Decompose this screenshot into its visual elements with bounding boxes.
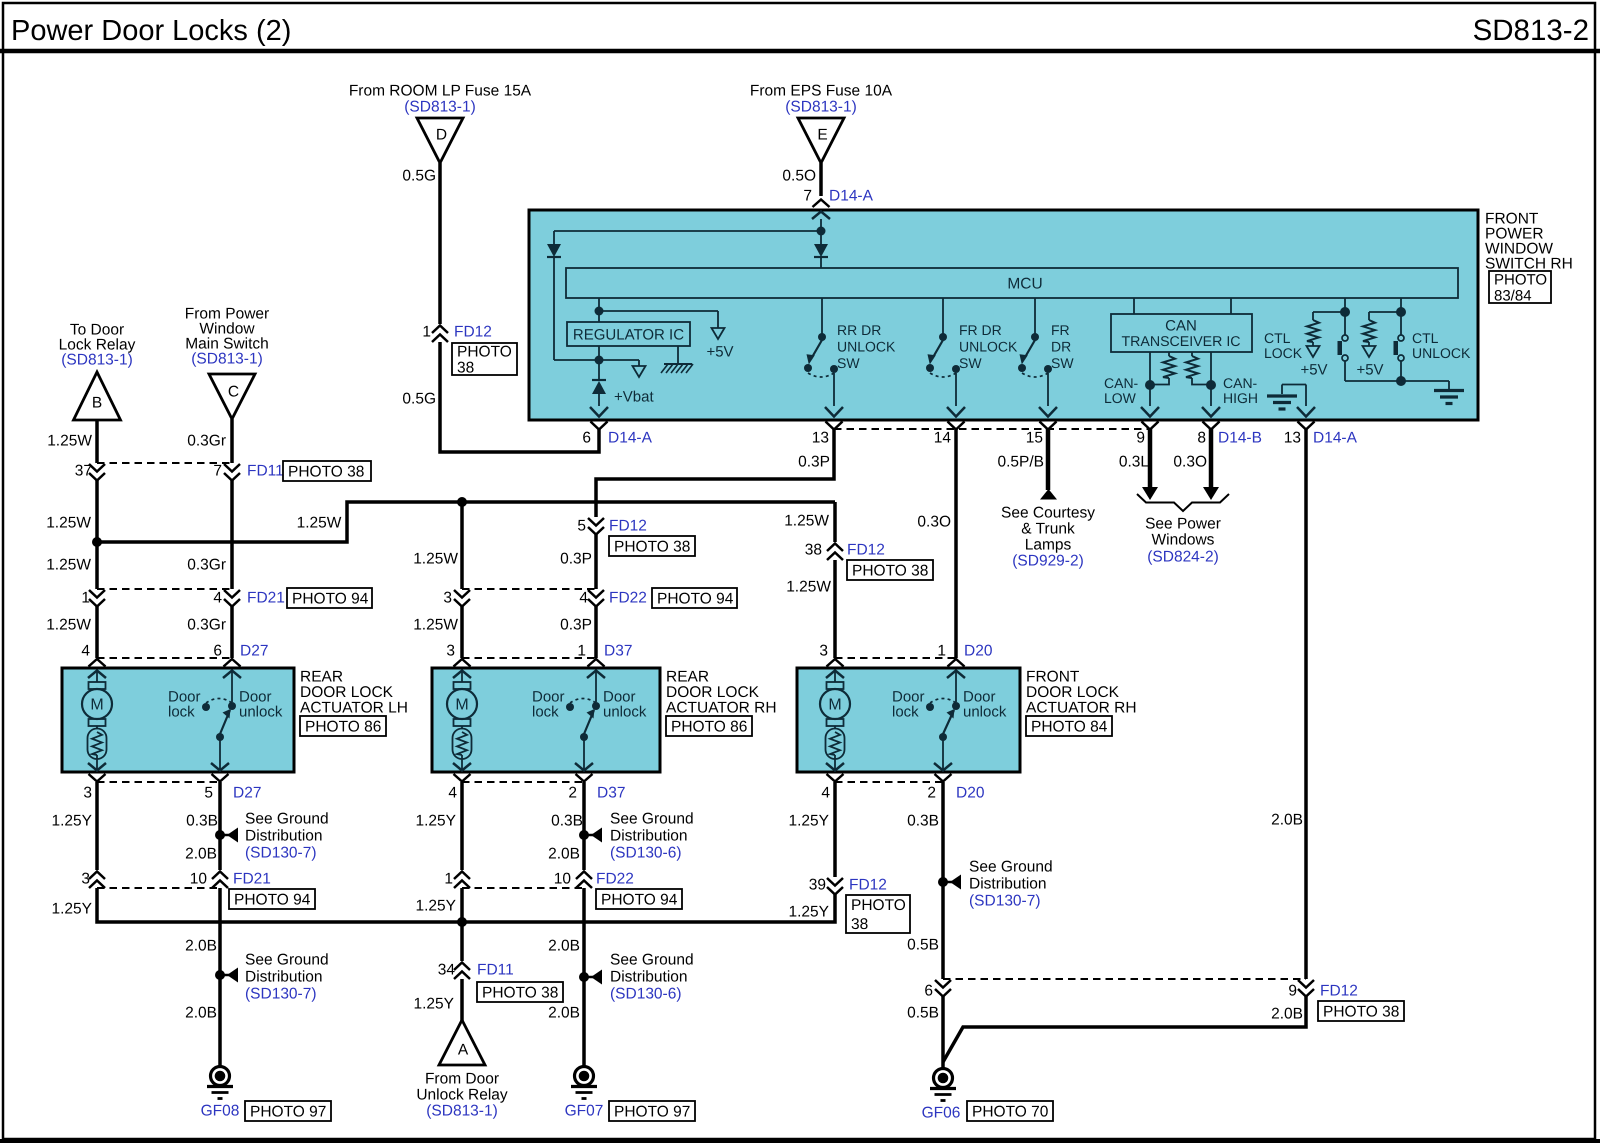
- svg-text:LOW: LOW: [1104, 390, 1137, 406]
- svg-text:D14-A: D14-A: [1313, 430, 1358, 447]
- svg-text:UNLOCK: UNLOCK: [959, 338, 1018, 354]
- svg-text:3: 3: [81, 871, 90, 888]
- svg-text:FD21: FD21: [233, 871, 271, 888]
- svg-text:1.25Y: 1.25Y: [788, 813, 829, 830]
- svg-text:PHOTO 38: PHOTO 38: [482, 985, 558, 1002]
- svg-text:HIGH: HIGH: [1223, 390, 1258, 406]
- svg-text:PHOTO 84: PHOTO 84: [1031, 719, 1108, 736]
- svg-text:unlock: unlock: [603, 703, 647, 720]
- svg-text:1.25W: 1.25W: [46, 557, 91, 574]
- svg-text:D20: D20: [956, 785, 985, 802]
- svg-text:REGULATOR IC: REGULATOR IC: [573, 326, 684, 343]
- svg-text:38: 38: [805, 542, 822, 559]
- svg-text:PHOTO 38: PHOTO 38: [614, 539, 690, 556]
- svg-text:PHOTO 86: PHOTO 86: [305, 719, 381, 736]
- svg-text:FD12: FD12: [1320, 983, 1358, 1000]
- svg-text:From ROOM LP Fuse 15A: From ROOM LP Fuse 15A: [349, 83, 532, 100]
- svg-text:(SD130-7): (SD130-7): [969, 893, 1041, 910]
- svg-text:FD12: FD12: [849, 877, 887, 894]
- svg-text:lock: lock: [168, 703, 195, 720]
- svg-text:PHOTO 97: PHOTO 97: [614, 1104, 690, 1121]
- svg-text:+5V: +5V: [1300, 361, 1327, 378]
- svg-text:DOOR LOCK: DOOR LOCK: [666, 684, 760, 701]
- svg-text:D14-A: D14-A: [829, 188, 874, 205]
- svg-text:D14-B: D14-B: [1218, 430, 1262, 447]
- svg-text:DOOR LOCK: DOOR LOCK: [1026, 684, 1120, 701]
- svg-text:REAR: REAR: [300, 669, 343, 686]
- svg-text:PHOTO 38: PHOTO 38: [852, 563, 928, 580]
- svg-text:0.3P: 0.3P: [560, 551, 592, 568]
- svg-text:SW: SW: [959, 355, 982, 371]
- svg-text:38: 38: [457, 360, 474, 377]
- svg-text:GF06: GF06: [922, 1105, 961, 1122]
- svg-text:DOOR LOCK: DOOR LOCK: [300, 684, 394, 701]
- svg-text:4: 4: [821, 785, 830, 802]
- svg-text:(SD813-1): (SD813-1): [191, 351, 263, 368]
- svg-text:3: 3: [446, 643, 455, 660]
- svg-text:7: 7: [803, 188, 812, 205]
- svg-text:1.25W: 1.25W: [786, 579, 831, 596]
- svg-text:0.3O: 0.3O: [917, 514, 951, 531]
- svg-text:Lamps: Lamps: [1025, 537, 1072, 554]
- svg-text:1.25Y: 1.25Y: [51, 813, 92, 830]
- svg-text:E: E: [817, 127, 827, 144]
- svg-text:0.3P: 0.3P: [798, 454, 830, 471]
- svg-text:FD22: FD22: [596, 871, 634, 888]
- svg-text:M: M: [90, 697, 103, 714]
- svg-text:0.3Gr: 0.3Gr: [187, 557, 226, 574]
- svg-text:D37: D37: [597, 785, 625, 802]
- svg-text:FD12: FD12: [454, 324, 492, 341]
- svg-text:(SD130-7): (SD130-7): [245, 845, 317, 862]
- svg-text:(SD813-1): (SD813-1): [61, 352, 133, 369]
- svg-text:See Ground: See Ground: [610, 811, 694, 828]
- svg-text:8: 8: [1197, 430, 1206, 447]
- svg-text:4: 4: [213, 590, 222, 607]
- svg-text:& Trunk: & Trunk: [1021, 521, 1075, 538]
- svg-text:1.25W: 1.25W: [297, 515, 342, 532]
- svg-text:FR: FR: [1051, 322, 1070, 338]
- svg-text:LOCK: LOCK: [1264, 345, 1303, 361]
- svg-text:lock: lock: [532, 703, 559, 720]
- svg-text:PHOTO: PHOTO: [457, 344, 512, 361]
- svg-text:0.5B: 0.5B: [907, 1005, 939, 1022]
- svg-text:Windows: Windows: [1152, 532, 1215, 549]
- svg-text:1.25W: 1.25W: [784, 513, 829, 530]
- svg-text:0.5B: 0.5B: [907, 937, 939, 954]
- svg-text:CTL: CTL: [1264, 330, 1291, 346]
- svg-text:0.3O: 0.3O: [1173, 454, 1207, 471]
- svg-text:unlock: unlock: [239, 703, 283, 720]
- svg-text:5: 5: [577, 518, 586, 535]
- svg-text:REAR: REAR: [666, 669, 709, 686]
- svg-text:1: 1: [577, 643, 586, 660]
- svg-text:5: 5: [204, 785, 213, 802]
- svg-text:See Ground: See Ground: [610, 952, 694, 969]
- svg-text:See Power: See Power: [1145, 516, 1221, 533]
- svg-text:CAN-: CAN-: [1104, 375, 1139, 391]
- svg-text:PHOTO 94: PHOTO 94: [234, 892, 311, 909]
- svg-text:1.25Y: 1.25Y: [51, 901, 92, 918]
- svg-text:6: 6: [213, 643, 222, 660]
- svg-text:(SD813-1): (SD813-1): [404, 99, 476, 116]
- svg-text:DR: DR: [1051, 338, 1071, 354]
- svg-text:1.25W: 1.25W: [46, 617, 91, 634]
- svg-text:SW: SW: [837, 355, 860, 371]
- svg-text:See Ground: See Ground: [969, 859, 1053, 876]
- svg-text:2: 2: [927, 785, 936, 802]
- svg-text:0.3Gr: 0.3Gr: [187, 617, 226, 634]
- svg-text:PHOTO 86: PHOTO 86: [671, 719, 747, 736]
- svg-text:CTL: CTL: [1412, 330, 1439, 346]
- svg-text:1: 1: [937, 643, 946, 660]
- svg-text:2.0B: 2.0B: [185, 846, 217, 863]
- svg-text:1.25W: 1.25W: [413, 551, 458, 568]
- svg-text:+Vbat: +Vbat: [614, 388, 654, 405]
- svg-text:GF08: GF08: [201, 1103, 240, 1120]
- svg-text:From EPS Fuse 10A: From EPS Fuse 10A: [750, 83, 893, 100]
- svg-text:2.0B: 2.0B: [185, 938, 217, 955]
- svg-text:1.25Y: 1.25Y: [788, 904, 829, 921]
- svg-text:D27: D27: [240, 643, 268, 660]
- svg-text:M: M: [828, 697, 841, 714]
- svg-text:CAN-: CAN-: [1223, 375, 1258, 391]
- svg-text:3: 3: [819, 643, 828, 660]
- svg-text:PHOTO 38: PHOTO 38: [288, 464, 364, 481]
- svg-text:(SD130-6): (SD130-6): [610, 986, 682, 1003]
- svg-text:1: 1: [444, 871, 453, 888]
- svg-text:15: 15: [1026, 430, 1043, 447]
- svg-text:+5V: +5V: [1356, 361, 1383, 378]
- svg-text:0.5G: 0.5G: [402, 168, 436, 185]
- svg-text:2.0B: 2.0B: [1271, 812, 1303, 829]
- svg-text:FD12: FD12: [609, 518, 647, 535]
- svg-text:(SD813-1): (SD813-1): [426, 1103, 498, 1120]
- svg-text:0.3Gr: 0.3Gr: [187, 433, 226, 450]
- svg-text:SW: SW: [1051, 355, 1074, 371]
- svg-text:UNLOCK: UNLOCK: [1412, 345, 1471, 361]
- svg-text:D20: D20: [964, 643, 993, 660]
- svg-text:D14-A: D14-A: [608, 430, 653, 447]
- svg-text:(SD929-2): (SD929-2): [1012, 553, 1084, 570]
- svg-text:See Ground: See Ground: [245, 811, 329, 828]
- svg-text:PHOTO 38: PHOTO 38: [1323, 1004, 1399, 1021]
- svg-text:2.0B: 2.0B: [548, 938, 580, 955]
- svg-text:Distribution: Distribution: [969, 876, 1047, 893]
- svg-text:0.3B: 0.3B: [907, 813, 939, 830]
- svg-text:PHOTO 97: PHOTO 97: [250, 1104, 326, 1121]
- svg-text:1.25W: 1.25W: [47, 433, 92, 450]
- svg-text:FRONT: FRONT: [1026, 669, 1080, 686]
- svg-text:See Ground: See Ground: [245, 952, 329, 969]
- svg-text:UNLOCK: UNLOCK: [837, 338, 896, 354]
- svg-text:SD813-2: SD813-2: [1473, 14, 1589, 47]
- svg-text:9: 9: [1288, 983, 1297, 1000]
- svg-text:PHOTO 70: PHOTO 70: [972, 1104, 1049, 1121]
- svg-text:34: 34: [438, 962, 456, 979]
- svg-text:PHOTO 94: PHOTO 94: [601, 892, 678, 909]
- svg-text:(SD824-2): (SD824-2): [1147, 549, 1219, 566]
- svg-text:D37: D37: [604, 643, 632, 660]
- svg-text:13: 13: [1284, 430, 1301, 447]
- svg-text:(SD130-7): (SD130-7): [245, 986, 317, 1003]
- svg-text:6: 6: [924, 983, 933, 1000]
- svg-text:FD22: FD22: [609, 590, 647, 607]
- svg-text:2.0B: 2.0B: [548, 1005, 580, 1022]
- svg-text:Distribution: Distribution: [610, 969, 688, 986]
- svg-text:1: 1: [81, 590, 90, 607]
- svg-text:TRANSCEIVER IC: TRANSCEIVER IC: [1121, 334, 1240, 350]
- svg-text:FR DR: FR DR: [959, 322, 1002, 338]
- svg-text:83/84: 83/84: [1494, 287, 1532, 304]
- svg-text:7: 7: [213, 463, 222, 480]
- svg-text:0.3B: 0.3B: [551, 813, 583, 830]
- svg-text:3: 3: [443, 590, 452, 607]
- svg-text:4: 4: [579, 590, 588, 607]
- svg-text:FD21: FD21: [247, 590, 285, 607]
- svg-text:+5V: +5V: [706, 343, 733, 360]
- svg-text:10: 10: [554, 871, 572, 888]
- svg-text:MCU: MCU: [1007, 276, 1042, 293]
- svg-text:Distribution: Distribution: [245, 828, 323, 845]
- svg-text:38: 38: [851, 916, 868, 933]
- svg-text:0.3L: 0.3L: [1119, 454, 1150, 471]
- svg-text:1.25W: 1.25W: [46, 515, 91, 532]
- svg-text:See Courtesy: See Courtesy: [1001, 505, 1095, 522]
- svg-text:lock: lock: [892, 703, 919, 720]
- svg-text:FD11: FD11: [477, 962, 514, 979]
- svg-text:Distribution: Distribution: [610, 828, 688, 845]
- svg-text:0.3P: 0.3P: [560, 617, 592, 634]
- svg-text:C: C: [228, 384, 239, 401]
- svg-text:1.25Y: 1.25Y: [415, 898, 456, 915]
- svg-text:unlock: unlock: [963, 703, 1007, 720]
- svg-text:PHOTO: PHOTO: [851, 897, 906, 914]
- svg-text:Distribution: Distribution: [245, 969, 323, 986]
- svg-text:37: 37: [75, 463, 92, 480]
- svg-text:14: 14: [934, 430, 952, 447]
- svg-text:ACTUATOR RH: ACTUATOR RH: [666, 700, 777, 717]
- svg-text:0.5G: 0.5G: [402, 391, 436, 408]
- svg-text:FD12: FD12: [847, 542, 885, 559]
- svg-text:(SD130-6): (SD130-6): [610, 845, 682, 862]
- svg-text:M: M: [455, 697, 468, 714]
- svg-text:ACTUATOR RH: ACTUATOR RH: [1026, 700, 1137, 717]
- svg-text:1.25W: 1.25W: [413, 617, 458, 634]
- svg-text:Power Door Locks (2): Power Door Locks (2): [11, 15, 291, 47]
- svg-text:Unlock Relay: Unlock Relay: [416, 1087, 508, 1104]
- svg-text:B: B: [92, 395, 102, 412]
- svg-text:1: 1: [422, 324, 431, 341]
- svg-text:0.3B: 0.3B: [186, 813, 218, 830]
- svg-text:FD11: FD11: [247, 463, 284, 480]
- svg-text:(SD813-1): (SD813-1): [785, 99, 857, 116]
- svg-text:PHOTO: PHOTO: [1494, 271, 1547, 288]
- svg-text:13: 13: [812, 430, 829, 447]
- svg-text:A: A: [458, 1042, 469, 1059]
- svg-text:2.0B: 2.0B: [185, 1005, 217, 1022]
- svg-text:1.25Y: 1.25Y: [413, 996, 454, 1013]
- svg-text:2.0B: 2.0B: [548, 846, 580, 863]
- svg-text:D: D: [436, 127, 447, 144]
- svg-text:PHOTO 94: PHOTO 94: [292, 591, 369, 608]
- svg-text:0.5O: 0.5O: [782, 168, 816, 185]
- svg-text:D27: D27: [233, 785, 261, 802]
- svg-text:6: 6: [582, 430, 591, 447]
- svg-text:From Door: From Door: [425, 1071, 499, 1088]
- svg-text:GF07: GF07: [565, 1103, 604, 1120]
- svg-text:ACTUATOR LH: ACTUATOR LH: [300, 700, 408, 717]
- svg-text:2: 2: [568, 785, 577, 802]
- svg-text:9: 9: [1136, 430, 1145, 447]
- svg-text:PHOTO 94: PHOTO 94: [657, 591, 734, 608]
- svg-text:SWITCH RH: SWITCH RH: [1485, 256, 1573, 273]
- svg-text:4: 4: [448, 785, 457, 802]
- svg-text:3: 3: [83, 785, 92, 802]
- svg-text:RR DR: RR DR: [837, 322, 881, 338]
- svg-text:4: 4: [81, 643, 90, 660]
- svg-text:CAN: CAN: [1165, 317, 1197, 334]
- svg-text:1.25Y: 1.25Y: [415, 813, 456, 830]
- svg-text:2.0B: 2.0B: [1271, 1006, 1303, 1023]
- svg-text:39: 39: [809, 877, 826, 894]
- svg-text:0.5P/B: 0.5P/B: [997, 454, 1044, 471]
- svg-text:10: 10: [190, 871, 208, 888]
